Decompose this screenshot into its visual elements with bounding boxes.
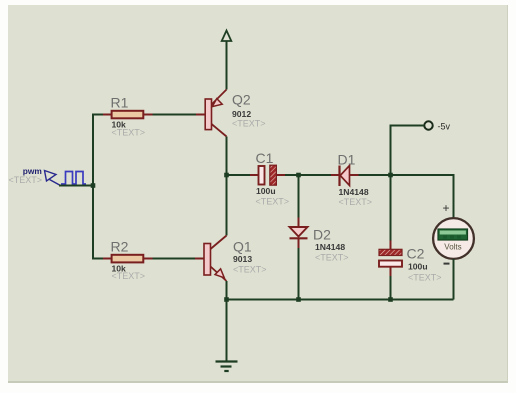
label R2 — [111, 239, 129, 255]
label C1 — [256, 150, 274, 166]
power arrow terminal — [222, 31, 232, 42]
transistor Q1 — [204, 236, 227, 282]
wire node B to D1 — [299, 174, 332, 176]
pwm generator flag — [45, 171, 61, 186]
svg-text:<TEXT>: <TEXT> — [408, 273, 442, 283]
pin R1 left — [103, 114, 112, 116]
voltmeter minus label — [444, 263, 450, 265]
pwm label — [23, 166, 42, 176]
wire C2 to bottom rail — [390, 276, 392, 300]
wire node B down to D2 — [298, 175, 300, 218]
wire bus to R1 — [92, 114, 103, 116]
pin R1 right — [143, 114, 152, 116]
wire node A down to Q1 collector — [226, 175, 228, 236]
wire Q1 emitter down to bottom rail — [226, 281, 228, 300]
value C2 100u — [408, 262, 428, 272]
pin R2 right — [143, 258, 152, 260]
svg-text:<TEXT>: <TEXT> — [256, 197, 290, 207]
node A junction — [224, 173, 229, 178]
value Q1 9013 — [233, 254, 252, 264]
value C1 100u — [256, 186, 276, 196]
wire left vertical bus — [92, 115, 94, 259]
resistor R1 — [112, 111, 144, 119]
wire node C down to C2 — [390, 175, 392, 241]
wire D1 to node C — [359, 174, 391, 176]
pin D1 right — [350, 174, 359, 176]
svg-text:<TEXT>: <TEXT> — [233, 265, 267, 275]
svg-text:Q1: Q1 — [233, 239, 252, 255]
svg-text:<TEXT>: <TEXT> — [232, 119, 266, 129]
value D2 1N4148 — [315, 242, 345, 252]
wire bottom rail — [227, 299, 454, 301]
pwm terminal TEXT label — [9, 175, 43, 185]
wire rail to ground — [226, 300, 228, 362]
node B junction — [296, 173, 301, 178]
svg-text:D1: D1 — [338, 152, 356, 168]
value R2 10k — [112, 264, 127, 274]
node rail-C2 junction — [388, 297, 393, 302]
label D2 — [313, 227, 331, 243]
pin Q1 base — [195, 258, 204, 260]
pin C2 top — [390, 241, 392, 250]
svg-text:Volts: Volts — [444, 243, 461, 252]
wire -5v to node C — [391, 126, 425, 176]
svg-text:D2: D2 — [313, 227, 331, 243]
pin Q2 base — [196, 114, 205, 116]
pin D1 left — [331, 174, 340, 176]
svg-text:9012: 9012 — [232, 109, 251, 119]
svg-text:+: + — [443, 201, 450, 215]
wire node C to voltmeter top — [391, 175, 454, 219]
node rail-left junction — [224, 297, 229, 302]
label -5v — [438, 122, 451, 132]
svg-text:Q2: Q2 — [232, 92, 251, 108]
capacitor C2 — [379, 249, 402, 266]
wire R2 to Q1 base — [153, 258, 196, 260]
capacitor C1 — [259, 165, 277, 185]
node rail-D2 junction — [296, 297, 301, 302]
label Q2 — [232, 92, 251, 108]
R1 TEXT label — [112, 128, 146, 138]
wire power arrow to Q2 emitter — [226, 41, 228, 90]
svg-text:R2: R2 — [111, 239, 129, 255]
voltmeter U1 — [433, 218, 474, 259]
svg-text:1N4148: 1N4148 — [339, 187, 369, 197]
pin D2 bottom — [298, 238, 300, 248]
svg-text:<TEXT>: <TEXT> — [112, 271, 146, 281]
svg-text:C1: C1 — [256, 150, 274, 166]
pin C2 bottom — [390, 267, 392, 276]
diode D2 — [290, 227, 308, 238]
D1 TEXT label — [339, 197, 373, 207]
label D1 — [338, 152, 356, 168]
svg-text:<TEXT>: <TEXT> — [339, 197, 373, 207]
wire C1 to node B — [285, 174, 299, 176]
label Q1 — [233, 239, 252, 255]
svg-text:<TEXT>: <TEXT> — [112, 128, 146, 138]
wire D2 to bottom rail — [298, 248, 300, 300]
terminal -5v — [424, 121, 432, 129]
wire pwm to left bus — [59, 185, 93, 187]
wire Q2 collector down to node A — [226, 137, 228, 176]
wire R1 to Q2 base — [153, 114, 197, 116]
voltmeter plus label — [443, 201, 450, 215]
svg-text:100u: 100u — [408, 262, 428, 272]
node pwm junction — [91, 183, 96, 188]
value D1 1N4148 — [339, 187, 369, 197]
pin R2 left — [103, 258, 112, 260]
svg-text:R1: R1 — [111, 95, 129, 111]
ground — [216, 362, 238, 372]
R2 TEXT label — [112, 271, 146, 281]
label R1 — [111, 95, 129, 111]
svg-text:<TEXT>: <TEXT> — [315, 253, 349, 263]
svg-text:1N4148: 1N4148 — [315, 242, 345, 252]
D2 TEXT label — [315, 253, 349, 263]
Q1 TEXT label — [233, 265, 267, 275]
svg-text:9013: 9013 — [233, 254, 252, 264]
svg-text:-5v: -5v — [438, 122, 451, 132]
value R1 10k — [112, 120, 127, 130]
pwm pulse waveform — [61, 172, 86, 185]
C2 TEXT label — [408, 273, 442, 283]
pin C1 right — [276, 174, 285, 176]
wire bus to R2 — [92, 258, 103, 260]
svg-text:C2: C2 — [407, 246, 425, 262]
resistor R2 — [112, 255, 144, 263]
label C2 — [407, 246, 425, 262]
node C junction — [388, 173, 393, 178]
svg-text:100u: 100u — [256, 186, 276, 196]
C1 TEXT label — [256, 197, 290, 207]
pin C1 left — [250, 174, 259, 176]
pin D2 top — [298, 218, 300, 228]
value Q2 9012 — [232, 109, 251, 119]
transistor Q2 — [205, 90, 226, 137]
wire node A to C1 — [227, 174, 251, 176]
svg-text:<TEXT>: <TEXT> — [9, 175, 43, 185]
Q2 TEXT label — [232, 119, 266, 129]
diode D1 — [340, 166, 350, 187]
wire voltmeter bottom to rail — [453, 259, 455, 300]
